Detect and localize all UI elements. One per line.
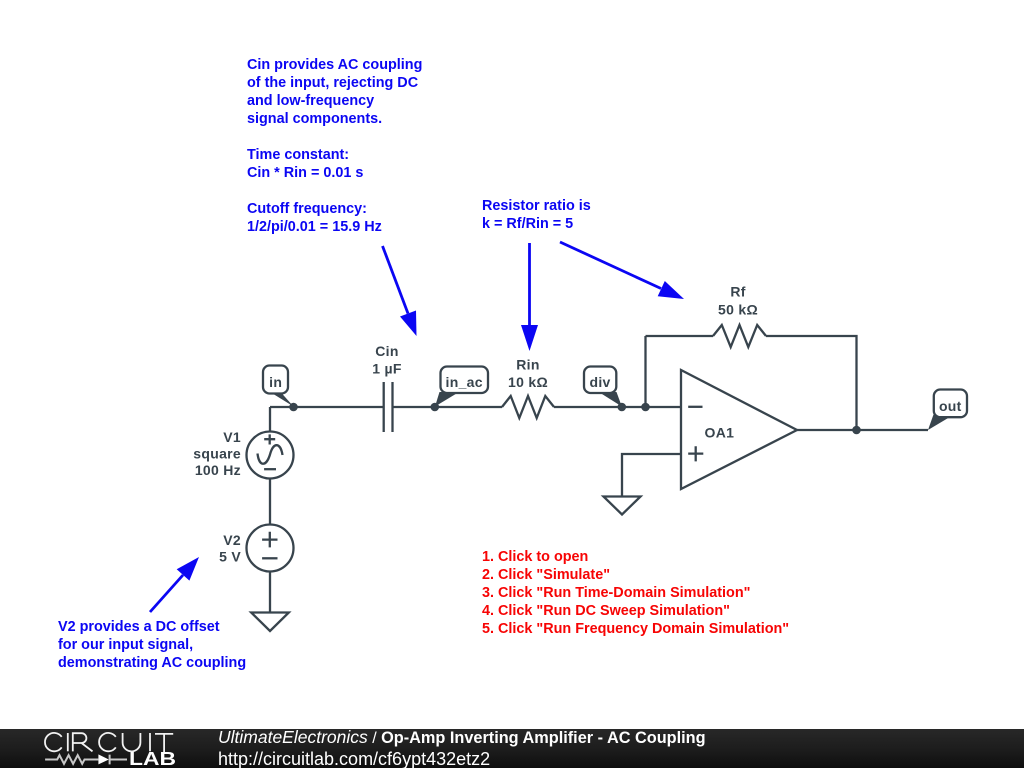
op-amp minus input symbol <box>688 406 702 408</box>
wire feedback vertical from div junction <box>644 336 646 407</box>
V1 source circle <box>247 432 294 479</box>
node flag in <box>263 366 294 407</box>
V1 sine waveform <box>258 445 283 464</box>
V1 plus sign <box>264 434 275 444</box>
logo letter I <box>67 733 69 751</box>
node dot in <box>289 403 298 412</box>
arrow annotation to Rin <box>521 243 538 351</box>
logo diode symbol <box>98 754 127 764</box>
label V2 value <box>219 532 241 565</box>
arrow annotation to capacitor <box>383 246 417 336</box>
logo letter C <box>99 733 116 751</box>
capacitor C in plates <box>384 382 393 432</box>
ground at op-amp non-inverting input <box>604 497 641 515</box>
logo LAB text <box>129 750 176 768</box>
logo letter I <box>149 733 151 751</box>
logo letter C <box>45 733 62 751</box>
resistor Rin zigzag <box>502 396 554 418</box>
wire Cin to Rin <box>393 406 503 408</box>
wire non-inverting input to ground <box>622 454 681 496</box>
wire feedback top right segment down to output <box>766 336 857 430</box>
V1 minus sign <box>264 468 276 470</box>
wire main input segment in to Cin <box>270 406 383 408</box>
wire Rin to op-amp inverting input <box>554 406 681 408</box>
footer title <box>218 727 706 749</box>
annotation: V2 DC offset note <box>58 618 246 672</box>
label Cin value <box>372 343 402 377</box>
op-amp U OA1 triangle <box>681 370 797 489</box>
label Rf value <box>718 284 758 318</box>
node dot output junction <box>852 426 861 435</box>
label Rin value <box>508 356 548 390</box>
node flag out <box>928 390 967 431</box>
wire op-amp output <box>797 429 928 431</box>
annotation: Resistor ratio note <box>482 197 591 233</box>
node flag div <box>584 367 622 407</box>
wire in node down to V1 <box>269 407 271 432</box>
logo letter T <box>155 734 173 753</box>
annotation: red click instructions <box>482 548 789 638</box>
op-amp plus input symbol <box>688 446 703 461</box>
ground under V2 <box>251 613 289 632</box>
V2 source circle <box>247 525 294 572</box>
V2 minus sign <box>262 557 277 559</box>
footer bar <box>0 729 1024 768</box>
wire V2 to ground <box>269 572 271 613</box>
node dot feedback junction <box>641 403 650 412</box>
label V1 value <box>193 429 241 478</box>
node dot div <box>618 403 627 412</box>
logo letter R <box>73 733 93 751</box>
wire feedback top left segment <box>646 335 714 337</box>
V2 plus sign <box>262 532 277 548</box>
label OA1 <box>705 424 735 440</box>
footer url <box>218 749 490 768</box>
logo letter U <box>123 733 141 751</box>
resistor Rf zigzag <box>713 325 766 347</box>
node flag in_ac <box>435 367 488 407</box>
arrow annotation to Rf <box>560 242 684 299</box>
annotation: Cin provides AC coupling note <box>247 56 422 236</box>
logo resistor symbol <box>45 755 98 764</box>
wire V1 to V2 <box>269 479 271 525</box>
arrow annotation to V2 <box>150 557 199 612</box>
node dot in_ac <box>431 403 440 412</box>
